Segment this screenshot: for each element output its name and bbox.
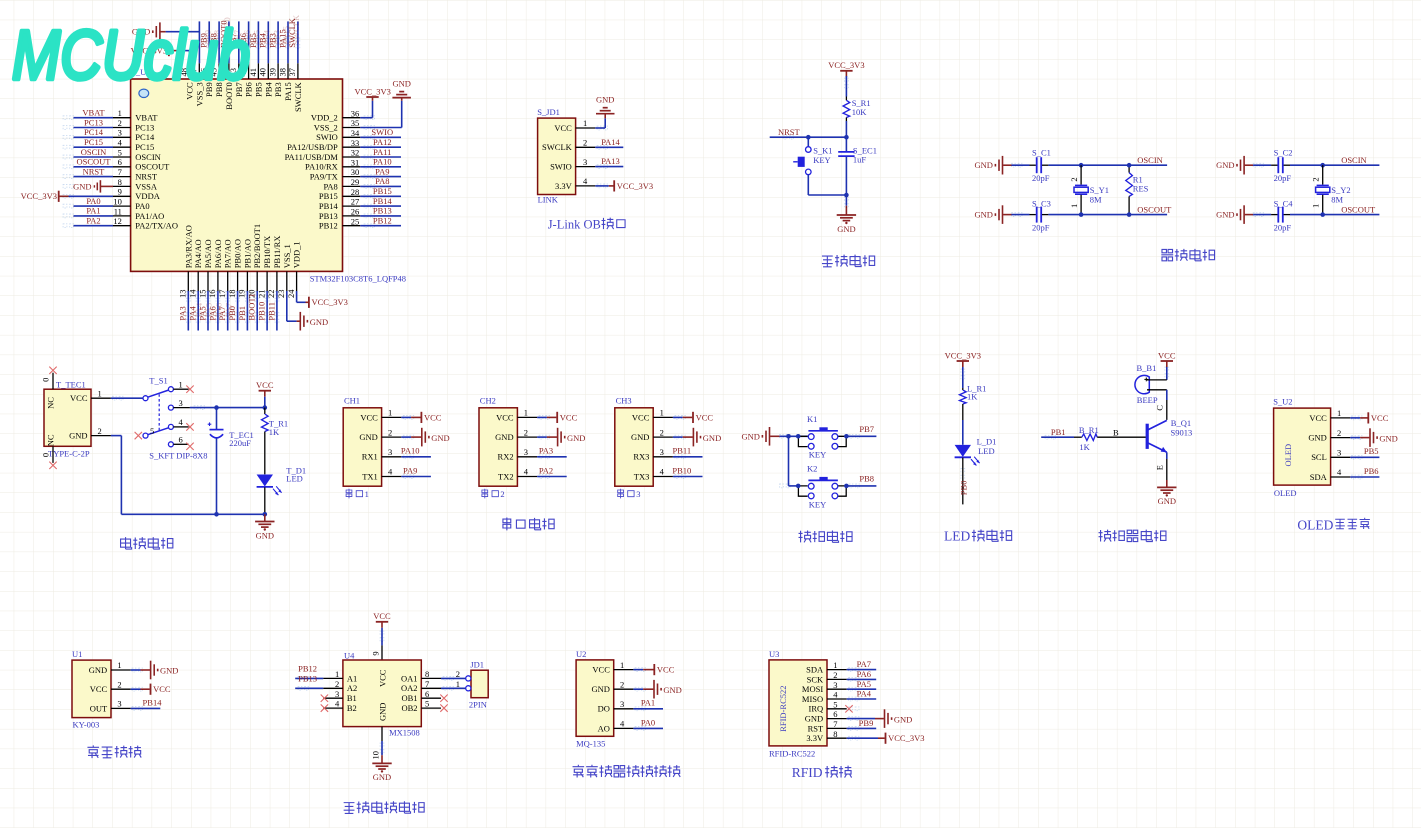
switch T_S1 S_KFT DIP-8X8 <box>143 396 148 401</box>
wire + net label OSCOUT (MCU pin 6) <box>74 166 114 168</box>
wire + net label NRST <box>770 136 847 138</box>
wire + net label PA0 (MCU pin 10) <box>74 205 114 207</box>
svg-text:8M: 8M <box>1331 195 1343 205</box>
svg-text:9: 9 <box>371 651 381 655</box>
wire + net label PA12 (MCU pin 33) <box>360 146 401 148</box>
svg-text:3: 3 <box>636 489 640 499</box>
svg-text:PA11: PA11 <box>373 147 391 157</box>
power flag VCC_3V3 at MCU pin 24 VDD_1 <box>296 291 298 302</box>
svg-text:TX2: TX2 <box>498 471 514 481</box>
title reset circuit <box>822 256 833 267</box>
wire + net label PB9 (MCU top pin 46) <box>208 21 210 63</box>
svg-text:PA9: PA9 <box>403 465 417 475</box>
connector S_JD1 LINK (J-Link OB) <box>538 118 576 194</box>
svg-text:GND: GND <box>431 433 449 443</box>
svg-text:PB12: PB12 <box>373 216 392 226</box>
ground GND at MCU pin 8 VSSA <box>101 185 113 187</box>
svg-text:GND: GND <box>1308 433 1326 443</box>
svg-text:OB1: OB1 <box>401 693 417 703</box>
capacitor S_C4 20pF <box>1253 214 1271 216</box>
svg-text:PB13: PB13 <box>298 674 317 684</box>
svg-text:PA2/TX/AO: PA2/TX/AO <box>135 221 178 231</box>
svg-text:U3: U3 <box>769 649 779 659</box>
svg-text:VCC: VCC <box>153 684 171 694</box>
svg-text:PB14: PB14 <box>319 201 339 211</box>
title serial circuit <box>503 517 511 530</box>
svg-text:1: 1 <box>117 660 121 670</box>
wire GND to keys <box>780 435 808 437</box>
title crystal circuit <box>1161 249 1173 260</box>
display module S_U2 OLED <box>1274 408 1331 485</box>
svg-text:OSCIN: OSCIN <box>81 147 107 157</box>
sensor module U1 KY-003 <box>72 660 111 718</box>
svg-text:BEEP: BEEP <box>1137 395 1158 405</box>
wire + net label PB8 (MCU top pin 45) <box>218 21 220 63</box>
capacitor S_C1 20pF <box>1012 164 1030 166</box>
svg-text:20pF: 20pF <box>1274 173 1292 183</box>
svg-text:4: 4 <box>833 690 838 700</box>
wire + net label SWCLK (MCU top pin 37) <box>297 21 299 63</box>
svg-text:LED: LED <box>944 529 970 544</box>
svg-text:VCC: VCC <box>560 412 578 422</box>
svg-text:PB6: PB6 <box>1364 466 1379 476</box>
power flag VCC_3V3 at S_JD1 pin 4 <box>595 185 609 187</box>
connector T_TEC1 TYPE-C-2P <box>44 389 91 446</box>
wire + net label NRST (MCU pin 7) <box>74 176 114 178</box>
capacitor S_C2 20pF <box>1253 164 1271 166</box>
title key circuit <box>799 530 812 542</box>
svg-text:OLED: OLED <box>1283 444 1293 467</box>
svg-text:S_C3: S_C3 <box>1032 199 1051 209</box>
svg-text:1: 1 <box>456 679 460 689</box>
svg-text:U1: U1 <box>72 649 82 659</box>
svg-text:T_S1: T_S1 <box>149 376 167 386</box>
svg-text:S9013: S9013 <box>1171 427 1193 437</box>
sensor module U2 MQ-135 <box>576 660 614 736</box>
svg-text:J-Link OB: J-Link OB <box>548 218 601 232</box>
ground GND (key circuit) <box>769 427 771 446</box>
svg-text:GND: GND <box>894 714 912 724</box>
svg-text:PC14: PC14 <box>135 132 155 142</box>
svg-text:SWIO: SWIO <box>316 132 338 142</box>
wire OSCIN net <box>1323 164 1380 166</box>
svg-text:PA0: PA0 <box>641 717 655 727</box>
power flag VCC_3V3 (LED circuit) <box>957 360 969 362</box>
wire + net label PA10 (MCU pin 31) <box>360 166 401 168</box>
power flag VCC at CH2 pin 1 <box>537 416 547 418</box>
svg-text:VCC_3V3: VCC_3V3 <box>828 60 864 70</box>
wire + net label BOOT1 (MCU bottom pin 20) <box>256 291 258 331</box>
svg-text:PB11/RX: PB11/RX <box>272 236 282 269</box>
wire + net label BOOT0 (MCU top pin 44) <box>228 21 230 63</box>
svg-text:32: 32 <box>351 148 360 158</box>
svg-text:1: 1 <box>1337 408 1341 418</box>
svg-text:0: 0 <box>41 453 51 457</box>
wire resistor to NRST node <box>845 121 847 137</box>
svg-text:PC15: PC15 <box>135 142 154 152</box>
svg-text:10: 10 <box>113 197 122 207</box>
ground GND at U3 pin 6 <box>847 718 875 720</box>
svg-text:PA9: PA9 <box>375 166 389 176</box>
svg-text:GND: GND <box>310 317 328 327</box>
svg-text:1: 1 <box>1069 204 1079 208</box>
svg-text:VCC: VCC <box>70 393 88 403</box>
svg-text:GND: GND <box>591 684 609 694</box>
ground GND at MCU pin 23 VSS_1 <box>286 291 288 321</box>
svg-text:7: 7 <box>118 167 122 177</box>
snap markers layer <box>63 116 67 120</box>
svg-text:GND: GND <box>73 181 91 191</box>
svg-text:LED: LED <box>978 446 995 456</box>
svg-text:PC13: PC13 <box>84 117 103 127</box>
svg-text:PB13: PB13 <box>373 206 392 216</box>
wire + net label PA5 at U3 pin 3 <box>847 688 877 690</box>
svg-text:GND: GND <box>1158 496 1176 506</box>
wire + net label PA2 at CH2 pin 4 <box>537 476 567 478</box>
svg-text:VCC: VCC <box>657 665 675 675</box>
svg-text:RFID-RC522: RFID-RC522 <box>769 749 815 759</box>
svg-text:GND: GND <box>567 433 585 443</box>
power flag VCC (motor circuit) <box>376 621 388 623</box>
svg-text:3.3V: 3.3V <box>806 733 824 743</box>
svg-text:PA6/AO: PA6/AO <box>213 239 223 268</box>
svg-text:2: 2 <box>335 679 339 689</box>
svg-text:GND: GND <box>805 714 823 724</box>
svg-text:PA3: PA3 <box>539 446 553 456</box>
svg-text:GND: GND <box>392 79 410 89</box>
svg-text:40: 40 <box>258 68 268 77</box>
wire bottom node of reset <box>808 194 846 196</box>
label serial port 2 <box>482 489 488 499</box>
svg-text:36: 36 <box>351 108 360 118</box>
junction ground rail / LED <box>263 512 268 517</box>
svg-text:1: 1 <box>179 379 183 389</box>
svg-text:DO: DO <box>598 704 610 714</box>
svg-text:PB10: PB10 <box>257 302 267 321</box>
MCU bottom pins 13-24 stubs and numbers <box>187 271 189 291</box>
wire + net label PA1 at U2 pin 3 <box>633 708 663 710</box>
svg-text:2: 2 <box>117 679 121 689</box>
svg-text:12: 12 <box>113 216 122 226</box>
svg-text:PB13: PB13 <box>319 211 338 221</box>
svg-text:1: 1 <box>365 489 369 499</box>
svg-text:K2: K2 <box>807 464 817 474</box>
wire + net label PB14 at U1 pin 3 <box>131 707 161 709</box>
svg-text:PA2: PA2 <box>86 216 100 226</box>
svg-text:OSCIN: OSCIN <box>1341 155 1367 165</box>
svg-text:MX1508: MX1508 <box>389 728 420 738</box>
junction left K1 <box>796 434 801 439</box>
svg-text:PB1/AO: PB1/AO <box>242 239 252 268</box>
svg-text:GND: GND <box>69 431 87 441</box>
svg-text:28: 28 <box>351 187 360 197</box>
ground GND (motor circuit) <box>381 741 383 755</box>
svg-text:KEY: KEY <box>809 450 826 460</box>
wire + net label SWIO (MCU pin 34) <box>360 136 401 138</box>
svg-text:GND: GND <box>1216 160 1234 170</box>
svg-text:39: 39 <box>267 68 277 77</box>
svg-text:VSSA: VSSA <box>135 181 158 191</box>
capacitor T_EC1 220uF (polarized) <box>216 408 218 429</box>
svg-text:OUT: OUT <box>90 703 108 713</box>
svg-text:PA3/RX/AO: PA3/RX/AO <box>183 225 193 268</box>
svg-text:RX2: RX2 <box>498 452 514 462</box>
svg-text:8: 8 <box>118 177 122 187</box>
svg-text:PB15: PB15 <box>373 186 392 196</box>
svg-text:1: 1 <box>335 669 339 679</box>
svg-text:S_JD1: S_JD1 <box>537 107 560 117</box>
wire + net label PB7 (MCU top pin 43) <box>238 21 240 63</box>
svg-text:OSCIN: OSCIN <box>135 152 161 162</box>
title hall module <box>87 745 99 758</box>
wire + net label PA10 at CH1 pin 3 <box>401 456 431 458</box>
svg-text:PA1: PA1 <box>86 206 100 216</box>
svg-text:OSCIN: OSCIN <box>1137 155 1163 165</box>
connector JD1 2PIN <box>471 670 488 698</box>
wire + net label PA4 at U3 pin 4 <box>847 698 877 700</box>
junction right K2 <box>844 484 849 489</box>
power flag VCC_3V3 at MCU pin 9 VDDA <box>58 191 60 202</box>
svg-text:PA2: PA2 <box>539 465 553 475</box>
svg-text:PB2/BOOT1: PB2/BOOT1 <box>252 224 262 268</box>
driver U4 MX1508 <box>343 660 421 727</box>
svg-text:VCC: VCC <box>360 412 378 422</box>
svg-text:0: 0 <box>41 378 51 382</box>
power flag VCC at U2 pin 1 <box>633 669 643 671</box>
svg-text:GND: GND <box>373 772 391 782</box>
no-connect X at U4 pin 6 OB1 <box>440 695 447 702</box>
wire switch pin3 to VCC node <box>190 407 265 409</box>
wire OSCIN net <box>1081 164 1167 166</box>
MX1508 pin 10 GND bottom <box>381 727 383 741</box>
svg-text:SDA: SDA <box>806 665 824 675</box>
svg-text:5: 5 <box>425 699 429 709</box>
svg-text:VCC: VCC <box>1371 413 1389 423</box>
svg-text:6: 6 <box>118 157 122 167</box>
svg-text:B: B <box>1113 427 1119 437</box>
svg-text:GND: GND <box>974 160 992 170</box>
svg-text:3: 3 <box>833 680 837 690</box>
svg-text:4: 4 <box>118 138 123 148</box>
svg-text:4: 4 <box>660 467 665 477</box>
svg-text:RFID-RC522: RFID-RC522 <box>778 686 788 732</box>
MCU left pins 1-12 stubs and numbers <box>113 117 131 119</box>
ground GND (crystal 1 top) <box>1002 156 1004 175</box>
svg-text:20pF: 20pF <box>1032 223 1050 233</box>
svg-text:2: 2 <box>833 670 837 680</box>
wire + net label PB5 at S_U2 pin 3 <box>1350 456 1379 458</box>
wire TYPE-C VCC to switch <box>111 397 143 399</box>
svg-text:33: 33 <box>351 138 360 148</box>
svg-text:2PIN: 2PIN <box>469 700 487 710</box>
svg-text:3: 3 <box>335 689 339 699</box>
svg-text:1: 1 <box>583 118 587 128</box>
svg-text:MCUclub: MCUclub <box>12 16 250 94</box>
wire + net label PA3 at CH2 pin 3 <box>537 456 567 458</box>
ground GND (power circuit) <box>264 514 266 521</box>
svg-text:3: 3 <box>179 398 183 408</box>
wire + net label PB9 at U3 pin 7 <box>847 727 877 729</box>
svg-text:SDA: SDA <box>1310 472 1328 482</box>
svg-text:PB14: PB14 <box>143 698 163 708</box>
svg-text:TX3: TX3 <box>634 471 650 481</box>
svg-text:6: 6 <box>179 435 183 445</box>
svg-text:3: 3 <box>583 157 587 167</box>
power flag VCC (power circuit) <box>259 390 271 392</box>
power flag VCC at U1 pin 2 <box>131 688 141 690</box>
svg-text:VCC: VCC <box>1309 413 1327 423</box>
svg-text:PB5: PB5 <box>1364 446 1379 456</box>
svg-text:1: 1 <box>833 660 837 670</box>
svg-text:VBAT: VBAT <box>82 108 105 118</box>
svg-text:2: 2 <box>1337 428 1341 438</box>
no-connect X at U4 pin 5 OB2 <box>440 704 447 711</box>
T_TEC1 bottom pin 0 (no connect) <box>52 446 54 463</box>
junction VCC branch <box>263 405 268 410</box>
wire + net label OSCIN (MCU pin 5) <box>74 156 114 158</box>
resistor L_R1 1K <box>962 388 964 390</box>
svg-text:KEY: KEY <box>813 155 830 165</box>
svg-text:S_C2: S_C2 <box>1274 147 1293 157</box>
junction key branch <box>786 434 791 439</box>
svg-text:RES: RES <box>1133 184 1149 194</box>
svg-text:SWCLK: SWCLK <box>291 14 301 45</box>
svg-text:PB3: PB3 <box>273 82 283 97</box>
T_TEC1 pin 2 GND <box>91 435 111 437</box>
svg-text:1: 1 <box>660 408 664 418</box>
junction crystal bottom 2 <box>1320 212 1325 217</box>
key S_K1 KEY (reset button) <box>807 137 809 147</box>
svg-text:KY-003: KY-003 <box>73 719 100 729</box>
wire + net label PB3 (MCU top pin 39) <box>277 21 279 63</box>
wire + net label PA13 (S_JD1 pin 3) <box>595 166 623 168</box>
svg-text:GND: GND <box>495 432 513 442</box>
wire OSCOUT net <box>1081 214 1167 216</box>
svg-text:GND: GND <box>703 433 721 443</box>
svg-text:C: C <box>1154 405 1164 411</box>
svg-text:U2: U2 <box>576 649 586 659</box>
svg-text:U4: U4 <box>344 650 355 660</box>
svg-text:PA10: PA10 <box>373 157 392 167</box>
svg-text:PA8: PA8 <box>375 176 389 186</box>
svg-text:VCC: VCC <box>554 123 572 133</box>
svg-text:3: 3 <box>388 447 392 457</box>
wire + net label PB7 <box>846 435 876 437</box>
svg-text:B1: B1 <box>347 693 357 703</box>
resistor B_R1 1K (base) <box>1041 436 1074 438</box>
no-connect X at U3 pin 5 IRQ <box>845 705 852 712</box>
resistor R1 RES (crystal feedback) <box>1128 165 1130 172</box>
svg-text:PA1/AO: PA1/AO <box>135 211 164 221</box>
svg-text:OA1: OA1 <box>401 673 418 683</box>
svg-text:VCC_3V3: VCC_3V3 <box>21 191 57 201</box>
junction crystal top 2 <box>1320 163 1325 168</box>
svg-text:3.3V: 3.3V <box>555 181 573 191</box>
wire + net label PB12 (U4 pin 1) <box>295 677 323 679</box>
wire + net label PB8 <box>846 485 876 487</box>
wire + net label PB6 (MCU top pin 42) <box>248 21 250 63</box>
svg-text:TYPE-C-2P: TYPE-C-2P <box>48 449 90 459</box>
svg-text:26: 26 <box>351 207 360 217</box>
svg-text:NRST: NRST <box>83 166 106 176</box>
svg-text:PB12: PB12 <box>298 663 317 673</box>
svg-text:13: 13 <box>178 290 188 299</box>
svg-text:GND: GND <box>377 703 387 721</box>
MCU top pins 48-37 stubs and numbers <box>189 63 191 79</box>
ground GND (reset circuit) <box>845 195 847 206</box>
svg-text:GND: GND <box>741 431 759 441</box>
wire + net label PB6 at S_U2 pin 4 <box>1350 476 1379 478</box>
svg-text:S_U2: S_U2 <box>1273 396 1292 406</box>
svg-text:30: 30 <box>351 167 360 177</box>
svg-text:SWCLK: SWCLK <box>293 81 303 112</box>
svg-text:VDDA: VDDA <box>135 191 160 201</box>
svg-text:27: 27 <box>351 197 360 207</box>
svg-text:S_KFT DIP-8X8: S_KFT DIP-8X8 <box>149 450 207 460</box>
svg-text:RST: RST <box>808 723 824 733</box>
U4 pins OA1-OB2 stubs <box>421 677 441 679</box>
ground GND at CH3 pin 2 <box>673 436 683 438</box>
wire + net label PB13 (U4 pin 2) <box>295 687 323 689</box>
svg-text:VBAT: VBAT <box>135 113 158 123</box>
svg-text:VDD_2: VDD_2 <box>311 113 338 123</box>
svg-text:OB2: OB2 <box>401 703 417 713</box>
svg-text:GND: GND <box>1379 433 1397 443</box>
wire + net label PA7 at U3 pin 1 <box>847 669 877 671</box>
junction crystal bottom 1 <box>1079 212 1084 217</box>
wire + net label PC13 (MCU pin 2) <box>74 127 114 129</box>
svg-text:7: 7 <box>833 719 837 729</box>
junction bottom reset <box>844 193 849 198</box>
svg-text:RX1: RX1 <box>362 452 378 462</box>
svg-text:PA3: PA3 <box>178 306 188 320</box>
svg-text:5: 5 <box>118 147 122 157</box>
svg-text:25: 25 <box>351 216 360 226</box>
junction left K2 <box>796 484 801 489</box>
wire + net label PB13 (MCU pin 26) <box>360 215 401 217</box>
svg-text:VCC_3V3: VCC_3V3 <box>312 297 348 307</box>
svg-text:2: 2 <box>524 427 528 437</box>
junction ground rail / cap <box>214 512 219 517</box>
wire + net label PA1 (MCU pin 11) <box>74 215 114 217</box>
svg-text:PA9/TX: PA9/TX <box>310 172 338 182</box>
svg-text:A1: A1 <box>347 673 357 683</box>
no-connect X at U4 pin 4 <box>321 704 328 711</box>
svg-text:PA0: PA0 <box>135 201 149 211</box>
svg-text:8: 8 <box>833 729 837 739</box>
wire + net label PB15 (MCU pin 28) <box>360 195 401 197</box>
svg-text:PA12: PA12 <box>373 137 392 147</box>
svg-text:3: 3 <box>660 447 664 457</box>
power flag VCC_3V3 at MCU pin 36 VDD_2 <box>360 117 372 119</box>
wire + net label PB12 (MCU pin 25) <box>360 225 401 227</box>
svg-text:1: 1 <box>1311 204 1321 208</box>
resistor S_R1 10K <box>845 97 847 101</box>
svg-text:VCC: VCC <box>424 412 442 422</box>
svg-text:VCC: VCC <box>377 669 387 687</box>
svg-text:SWCLK: SWCLK <box>542 142 573 152</box>
svg-text:B_R1: B_R1 <box>1079 425 1099 435</box>
svg-text:PA10: PA10 <box>401 446 420 456</box>
wire + net label PA9 (MCU pin 30) <box>360 176 401 178</box>
wire + net label PB11 (MCU bottom pin 22) <box>276 291 278 331</box>
svg-text:9: 9 <box>118 187 122 197</box>
connector CH3 serial header <box>615 408 653 486</box>
junction R1 bottom <box>1127 212 1132 217</box>
svg-text:KEY: KEY <box>809 499 826 509</box>
LED T_D1 <box>257 475 273 487</box>
svg-text:3: 3 <box>524 447 528 457</box>
